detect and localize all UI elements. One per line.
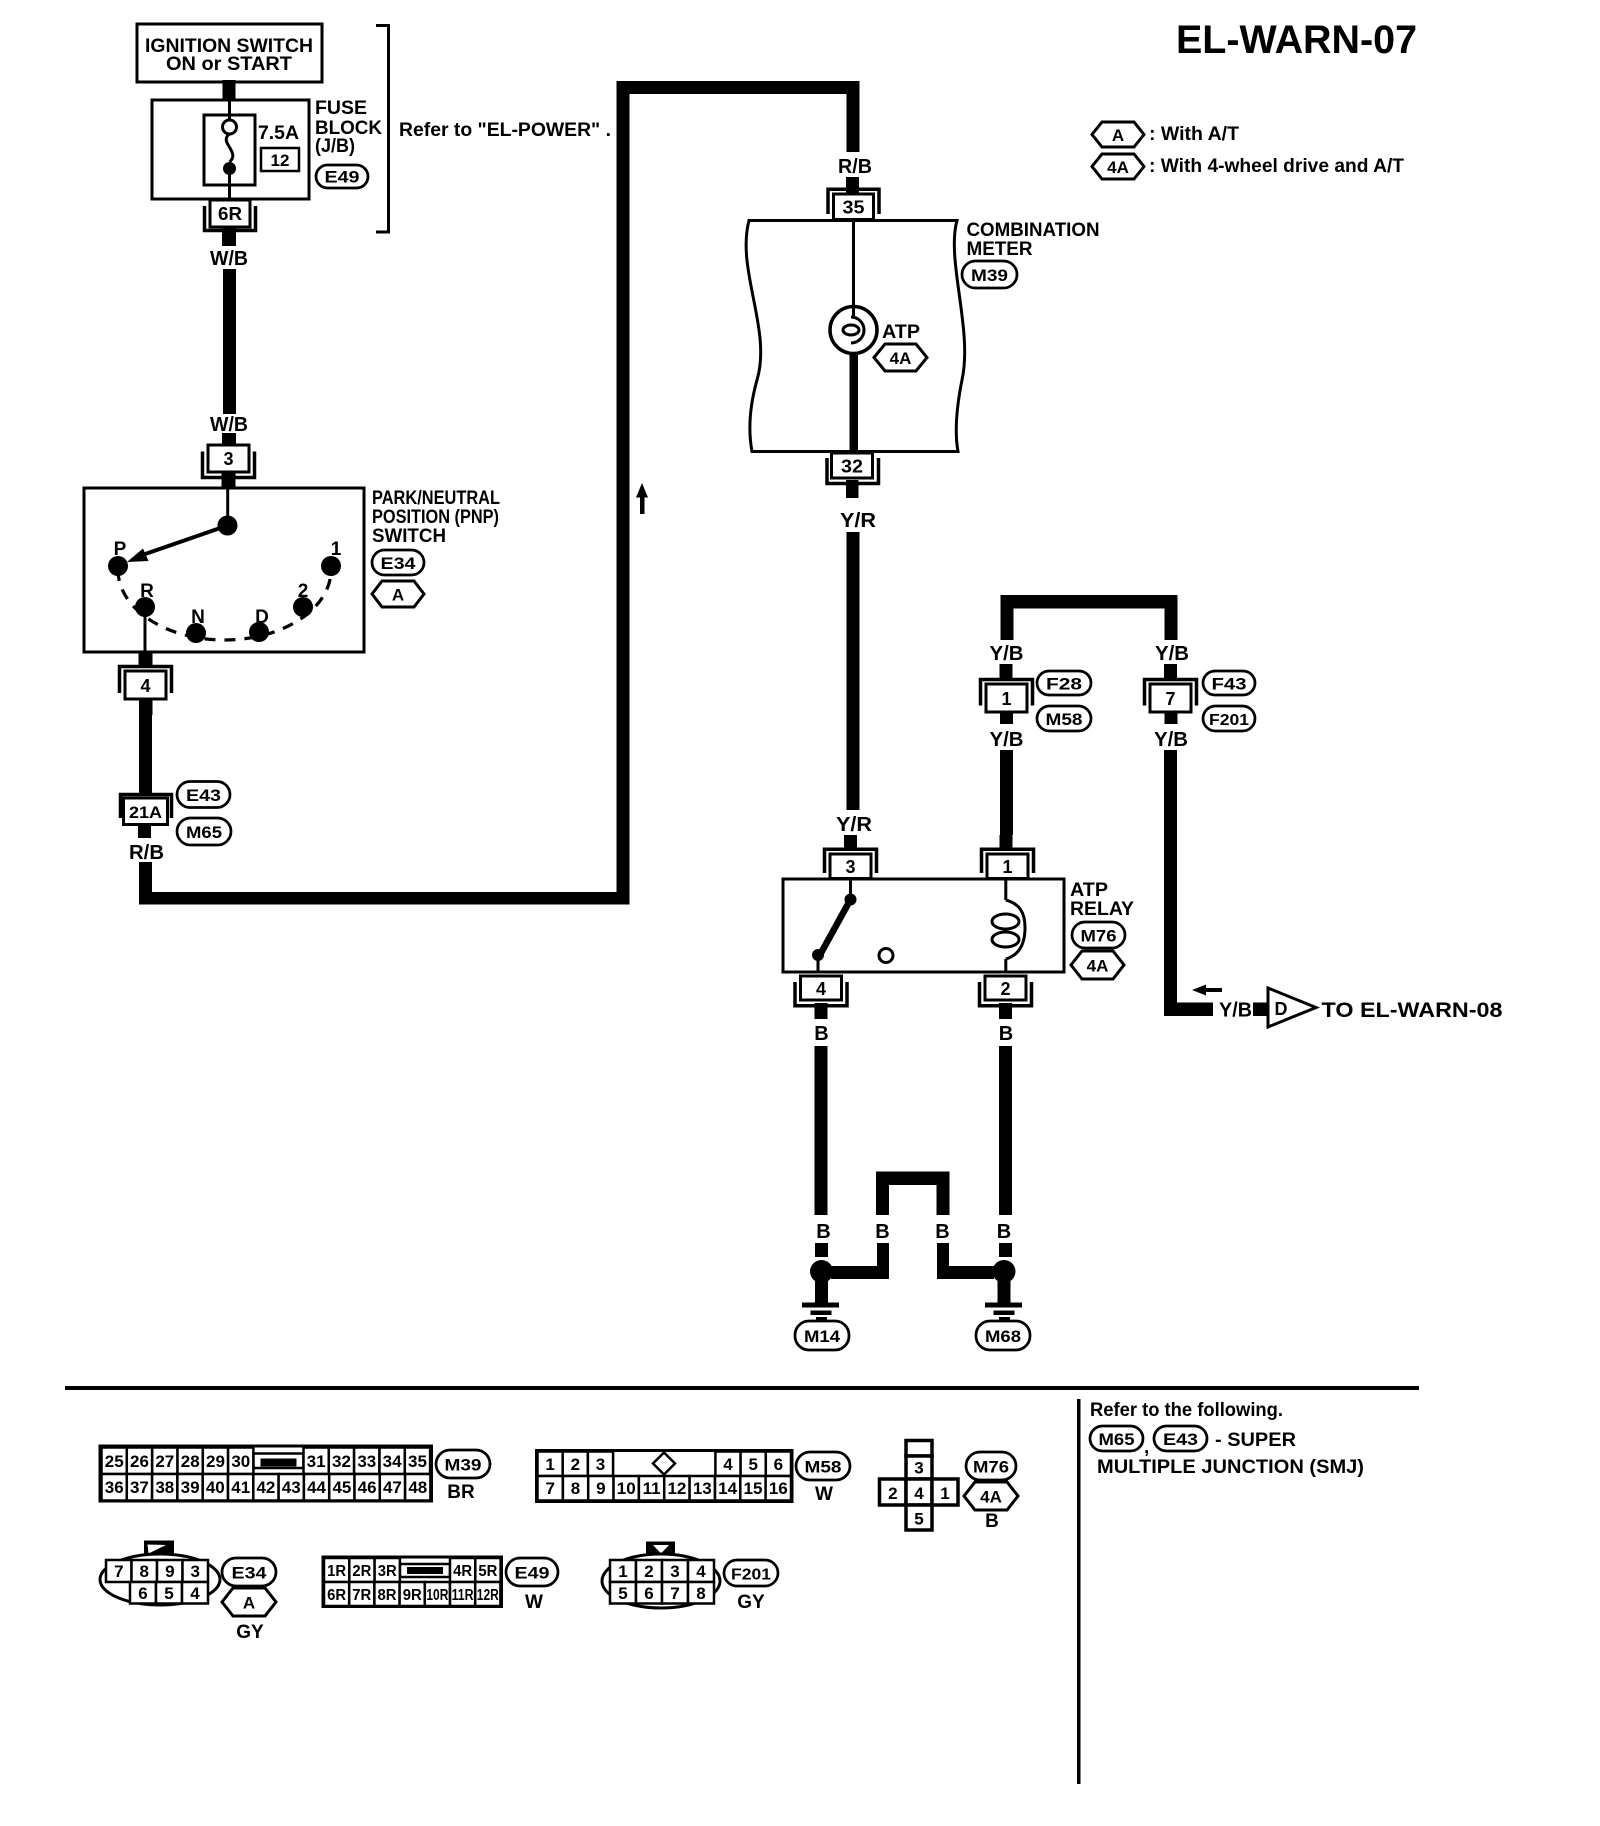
svg-text:Refer to the following.: Refer to the following. (1090, 1400, 1283, 1421)
svg-text:1: 1 (1001, 689, 1011, 709)
PNP contact dot 1 (321, 556, 341, 576)
connector pinout M39 grid (100, 1446, 432, 1501)
wire long left vertical (617, 81, 630, 905)
wire long top horizontal (617, 81, 860, 94)
wire Y/R vertical (847, 532, 860, 810)
wire stub above relay pin 3 (844, 835, 857, 849)
PNP contact dot P (108, 556, 128, 576)
connector 35 (828, 189, 879, 219)
svg-text:A: A (243, 1594, 255, 1613)
svg-text:ON or START: ON or START (166, 54, 292, 75)
svg-text:P: P (114, 539, 127, 560)
combination meter body (746, 221, 965, 452)
svg-text:7: 7 (670, 1584, 679, 1603)
svg-text:35: 35 (843, 198, 865, 218)
svg-text:E34: E34 (381, 554, 417, 573)
svg-text:1: 1 (331, 539, 342, 560)
relay switch blade (821, 900, 851, 954)
svg-text:30: 30 (231, 1452, 250, 1471)
svg-text:27: 27 (155, 1452, 174, 1471)
relay name ATP RELAY (1070, 880, 1134, 920)
svg-text:MULTIPLE JUNCTION (SMJ): MULTIPLE JUNCTION (SMJ) (1097, 1457, 1364, 1478)
wire stub above connector 4 (139, 652, 153, 667)
connector 32 (827, 453, 879, 498)
svg-text:6R: 6R (218, 204, 242, 224)
option hexagon 4A meter (874, 344, 927, 371)
wire ignition to fuse block (223, 80, 236, 101)
svg-text:42: 42 (256, 1478, 275, 1497)
arrow pointing left (1192, 985, 1222, 996)
svg-text:7: 7 (545, 1479, 554, 1498)
svg-text:- SUPER: - SUPER (1215, 1430, 1296, 1451)
connector label M76 oval bottom (966, 1452, 1016, 1480)
ground symbol M68 (985, 1281, 1022, 1321)
svg-text:Y/B: Y/B (1155, 643, 1189, 665)
option hexagon A (372, 581, 424, 607)
ATP relay box (783, 879, 1064, 972)
svg-text:R: R (140, 581, 154, 602)
ground name M14 oval (795, 1321, 849, 1350)
wire Y/B right vertical long (1164, 750, 1177, 1016)
PNP contact dot R (135, 597, 155, 617)
svg-text:29: 29 (206, 1452, 225, 1471)
svg-text:25: 25 (105, 1452, 124, 1471)
svg-text:9: 9 (596, 1479, 605, 1498)
svg-text:7R: 7R (352, 1587, 371, 1604)
svg-text:,: , (1144, 1437, 1149, 1458)
svg-text:9R: 9R (403, 1587, 422, 1604)
connector 21A (121, 795, 172, 839)
svg-text:ATP: ATP (1070, 880, 1108, 901)
wire lamp to pin 32 (850, 352, 859, 452)
svg-text:F201: F201 (731, 1567, 771, 1584)
wire stub above connector 35 (846, 177, 859, 195)
svg-text:POSITION (PNP): POSITION (PNP) (372, 507, 499, 528)
svg-text:GY: GY (737, 1592, 765, 1613)
wire bridge-left corner to junction (831, 1243, 889, 1279)
connector label E49 oval bottom (506, 1558, 558, 1586)
wire right vertical to R/B (847, 81, 860, 152)
svg-text:8: 8 (696, 1584, 705, 1603)
svg-text:F43: F43 (1212, 675, 1247, 694)
svg-text:M68: M68 (985, 1327, 1021, 1346)
svg-text:4: 4 (723, 1455, 733, 1474)
svg-text:1R: 1R (327, 1563, 346, 1580)
svg-text:A: A (392, 586, 404, 605)
wire stub to right junction (999, 1243, 1012, 1257)
PNP contact dot 2 (293, 597, 313, 617)
wire Y/B bridge right leg (1165, 595, 1178, 640)
svg-text:11R: 11R (452, 1587, 474, 1604)
svg-text:44: 44 (307, 1478, 326, 1497)
svg-text:M39: M39 (445, 1456, 482, 1475)
svg-text:5: 5 (914, 1510, 923, 1529)
wire bridge-right corner to junction (937, 1243, 994, 1279)
svg-text:W: W (815, 1484, 833, 1505)
svg-text:46: 46 (358, 1478, 377, 1497)
wire stub before triangle D (1253, 1003, 1269, 1017)
svg-text:28: 28 (181, 1452, 200, 1471)
svg-text:E43: E43 (186, 786, 221, 805)
svg-text:1: 1 (1002, 857, 1012, 877)
fuse block box (152, 100, 309, 199)
svg-text:4A: 4A (1087, 957, 1109, 976)
svg-text:11: 11 (643, 1479, 661, 1498)
connector 6R (205, 200, 256, 246)
wire long bottom horizontal (139, 892, 630, 905)
connector label M39 oval bottom (436, 1450, 490, 1478)
wire into PNP pivot (226, 489, 229, 518)
PNP contact dot D (249, 622, 269, 642)
svg-text:B: B (875, 1221, 889, 1243)
svg-text:41: 41 (231, 1478, 250, 1497)
svg-text:6: 6 (774, 1455, 783, 1474)
svg-text:B: B (997, 1221, 1011, 1243)
ground symbol M14 (802, 1281, 839, 1321)
svg-text:(J/B): (J/B) (315, 136, 355, 157)
svg-text:8: 8 (139, 1562, 148, 1581)
svg-text:2: 2 (1000, 979, 1010, 999)
connector 1 F28 (981, 680, 1033, 725)
svg-text:36: 36 (105, 1478, 124, 1497)
connector pinout F201 ellipse (602, 1542, 720, 1609)
svg-text:B: B (935, 1221, 949, 1243)
svg-text:4A: 4A (1107, 158, 1129, 177)
svg-text:Y/R: Y/R (836, 814, 873, 836)
svg-text:37: 37 (130, 1478, 149, 1497)
svg-text:B: B (814, 1023, 828, 1045)
wire stub to left junction (815, 1243, 828, 1257)
svg-text:34: 34 (383, 1452, 402, 1471)
svg-text:8: 8 (571, 1479, 580, 1498)
connector relay 4 (795, 976, 847, 1019)
wire stub above relay pin 1 (1000, 835, 1013, 849)
connector label M58 oval (1037, 706, 1091, 731)
relay coil (992, 879, 1025, 972)
svg-text:4: 4 (914, 1484, 924, 1503)
svg-text:R/B: R/B (838, 156, 872, 178)
svg-text:M65: M65 (1099, 1430, 1135, 1449)
connector relay 3 (825, 849, 877, 878)
svg-text:4: 4 (140, 676, 150, 696)
separator line (65, 1386, 1419, 1390)
flow direction arrow up (636, 483, 648, 514)
wire W/B vertical (223, 269, 236, 414)
connector pinout M58 grid (537, 1451, 793, 1502)
svg-text:E34: E34 (232, 1564, 268, 1583)
svg-text:N: N (191, 607, 205, 628)
svg-text:3: 3 (190, 1562, 199, 1581)
indicator lamp ATP (830, 307, 877, 354)
svg-text:Y/B: Y/B (990, 643, 1024, 665)
svg-text:10R: 10R (426, 1587, 448, 1604)
fuse number 12 box (261, 148, 299, 171)
svg-text:47: 47 (383, 1478, 402, 1497)
relay switch top dot (845, 894, 857, 906)
svg-text:M76: M76 (1081, 927, 1117, 946)
svg-text:2: 2 (298, 581, 309, 602)
svg-text:ATP: ATP (882, 322, 920, 343)
svg-text:45: 45 (332, 1478, 351, 1497)
svg-text:M65: M65 (186, 823, 222, 842)
svg-text:TO EL-WARN-08: TO EL-WARN-08 (1322, 999, 1503, 1022)
wire relay2 down (999, 1046, 1012, 1215)
svg-text:5R: 5R (478, 1563, 497, 1580)
svg-text:M39: M39 (971, 266, 1008, 285)
wire relay4 down (815, 1046, 828, 1215)
svg-text:1: 1 (618, 1562, 627, 1581)
svg-text:32: 32 (841, 457, 863, 477)
bracket refer to EL-POWER (376, 26, 389, 233)
wire Y/B bridge top (1001, 595, 1178, 609)
svg-text:BR: BR (447, 1482, 475, 1503)
PNP name text (372, 488, 500, 547)
svg-text:10: 10 (617, 1479, 636, 1498)
wire into lamp (852, 220, 855, 318)
wire Y/B left vertical (1000, 750, 1013, 835)
relay switch pin 4 lead (817, 955, 820, 972)
option hexagon A bottom (222, 1588, 276, 1616)
svg-text:D: D (255, 607, 269, 628)
svg-text:B: B (985, 1511, 999, 1532)
svg-text:12: 12 (667, 1479, 686, 1498)
svg-text:15: 15 (744, 1479, 763, 1498)
ignition switch box (137, 24, 322, 82)
svg-text:: With A/T: : With A/T (1149, 124, 1239, 145)
svg-text:R/B: R/B (129, 842, 164, 864)
wire 21A down to corner (139, 862, 152, 905)
svg-text:F28: F28 (1046, 675, 1082, 694)
connector label E49 oval (316, 165, 368, 188)
off-page triangle D (1268, 988, 1316, 1027)
connector label M58 oval bottom (796, 1452, 850, 1480)
connector label E43 oval bottom (1154, 1426, 1207, 1451)
fuse block name text (315, 98, 382, 157)
svg-text:1: 1 (545, 1455, 554, 1474)
svg-text:E49: E49 (515, 1564, 550, 1583)
svg-text:48: 48 (408, 1478, 427, 1497)
connector label M39 oval (962, 261, 1017, 288)
connector label M65 oval (177, 818, 231, 845)
svg-text:Y/B: Y/B (990, 729, 1024, 751)
svg-text:4: 4 (816, 979, 826, 999)
svg-text:Refer to "EL-POWER" .: Refer to "EL-POWER" . (399, 120, 611, 141)
svg-text:5: 5 (164, 1584, 173, 1603)
svg-text:: With 4-wheel drive and A/T: : With 4-wheel drive and A/T (1149, 156, 1404, 177)
svg-text:35: 35 (408, 1452, 427, 1471)
svg-text:40: 40 (206, 1478, 225, 1497)
svg-text:3: 3 (845, 857, 855, 877)
svg-text:32: 32 (332, 1452, 351, 1471)
ground bridge wire (876, 1172, 950, 1216)
svg-text:E49: E49 (325, 168, 360, 187)
wire stub above connector F28 (1000, 664, 1013, 679)
svg-text:12R: 12R (477, 1587, 499, 1604)
svg-text:PARK/NEUTRAL: PARK/NEUTRAL (372, 488, 500, 509)
svg-text:5: 5 (748, 1455, 757, 1474)
svg-text:3: 3 (596, 1455, 605, 1474)
svg-text:M14: M14 (804, 1327, 841, 1346)
connector pinout E34 ellipse (100, 1541, 220, 1606)
svg-text:26: 26 (130, 1452, 149, 1471)
svg-text:Y/B: Y/B (1154, 729, 1188, 751)
svg-text:3: 3 (914, 1459, 923, 1478)
svg-text:2: 2 (888, 1484, 897, 1503)
svg-text:43: 43 (282, 1478, 301, 1497)
PNP selector arrow (127, 526, 228, 563)
svg-text:GY: GY (236, 1622, 264, 1643)
wire stub above connector 3 (222, 433, 236, 447)
svg-text:2: 2 (571, 1455, 580, 1474)
option hexagon 4A bottom (964, 1482, 1018, 1510)
connector pinout M76 cross (880, 1441, 959, 1531)
wire 4 to 21A (139, 713, 152, 793)
svg-text:3R: 3R (378, 1563, 397, 1580)
PNP dashed arc (118, 570, 331, 640)
svg-text:Y/B: Y/B (1219, 1000, 1252, 1022)
junction dot left (810, 1260, 833, 1283)
svg-text:1: 1 (940, 1484, 949, 1503)
svg-text:W: W (525, 1592, 543, 1613)
svg-text:2: 2 (644, 1562, 653, 1581)
connector 4 (120, 667, 172, 716)
svg-text:7: 7 (1165, 689, 1175, 709)
svg-text:SWITCH: SWITCH (372, 526, 446, 547)
svg-text:9: 9 (165, 1562, 174, 1581)
wire R contact to pin 4 (144, 607, 147, 652)
legend hexagon A (1092, 122, 1144, 147)
legend divider vertical line (1077, 1399, 1081, 1784)
svg-text:2R: 2R (352, 1563, 371, 1580)
svg-text:D: D (1275, 999, 1288, 1019)
svg-text:M58: M58 (805, 1458, 842, 1477)
svg-text:12: 12 (271, 151, 290, 170)
relay small circle contact (879, 949, 893, 963)
connector label F28 oval (1037, 671, 1091, 695)
svg-text:6: 6 (644, 1584, 653, 1603)
svg-text:6: 6 (138, 1584, 147, 1603)
svg-text:W/B: W/B (210, 414, 248, 436)
connector 7 F43 (1145, 680, 1197, 725)
svg-text:E43: E43 (1163, 1430, 1198, 1449)
svg-text:M76: M76 (973, 1458, 1009, 1477)
legend hexagon 4A (1092, 154, 1144, 179)
svg-text:4A: 4A (890, 349, 912, 368)
connector relay 1 (982, 849, 1034, 878)
svg-text:14: 14 (718, 1479, 737, 1498)
svg-text:W/B: W/B (210, 248, 248, 270)
svg-text:B: B (999, 1023, 1013, 1045)
PNP switch box (84, 488, 364, 652)
svg-text:Y/R: Y/R (840, 510, 877, 532)
connector label M76 oval (1072, 922, 1125, 948)
svg-text:13: 13 (693, 1479, 712, 1498)
combination meter name (967, 220, 1100, 260)
svg-text:4: 4 (190, 1584, 200, 1603)
svg-text:7: 7 (114, 1562, 123, 1581)
connector label E34 oval bottom (222, 1558, 276, 1586)
PNP pivot dot (218, 516, 238, 536)
svg-text:16: 16 (769, 1479, 788, 1498)
connector label F201 oval bottom (724, 1560, 778, 1586)
relay switch bottom dot (812, 949, 824, 961)
wire stub above connector F43 (1164, 664, 1177, 679)
svg-text:METER: METER (967, 239, 1033, 260)
connector label M65 oval bottom (1090, 1426, 1143, 1451)
svg-text:RELAY: RELAY (1070, 899, 1134, 920)
PNP contact dot N (186, 623, 206, 643)
svg-text:8R: 8R (378, 1587, 397, 1604)
connector label F43 oval (1203, 671, 1255, 695)
fuse element (204, 100, 255, 200)
svg-text:FUSE: FUSE (315, 98, 367, 119)
wire Y/B bridge left leg (1001, 595, 1014, 640)
svg-text:33: 33 (357, 1452, 376, 1471)
svg-text:5: 5 (618, 1584, 627, 1603)
svg-text:7.5A: 7.5A (258, 123, 299, 144)
connector label E43 oval (177, 782, 230, 808)
connector 3 (203, 445, 255, 489)
svg-text:21A: 21A (129, 803, 162, 822)
relay switch pin 3 lead (849, 879, 852, 896)
svg-text:39: 39 (181, 1478, 200, 1497)
wire Y/B corner horizontal (1164, 1003, 1213, 1017)
svg-text:38: 38 (155, 1478, 174, 1497)
svg-text:COMBINATION: COMBINATION (967, 220, 1100, 241)
option hexagon 4A relay (1071, 951, 1124, 979)
svg-text:B: B (816, 1221, 830, 1243)
junction dot right (993, 1260, 1016, 1283)
svg-text:31: 31 (307, 1452, 326, 1471)
svg-text:3: 3 (670, 1562, 679, 1581)
svg-text:EL-WARN-07: EL-WARN-07 (1176, 18, 1417, 62)
svg-text:F201: F201 (1209, 712, 1249, 729)
svg-text:4A: 4A (980, 1488, 1002, 1507)
svg-text:M58: M58 (1046, 710, 1083, 729)
svg-text:A: A (1112, 126, 1124, 145)
svg-text:6R: 6R (327, 1587, 346, 1604)
connector relay 2 (980, 976, 1032, 1019)
connector label F201 oval (1203, 706, 1255, 731)
svg-text:4R: 4R (453, 1563, 472, 1580)
ground name M68 oval (976, 1321, 1030, 1350)
connector label E34 oval (372, 550, 424, 575)
svg-text:4: 4 (696, 1562, 706, 1581)
svg-text:3: 3 (223, 449, 233, 469)
connector pinout E49 grid (323, 1557, 502, 1607)
